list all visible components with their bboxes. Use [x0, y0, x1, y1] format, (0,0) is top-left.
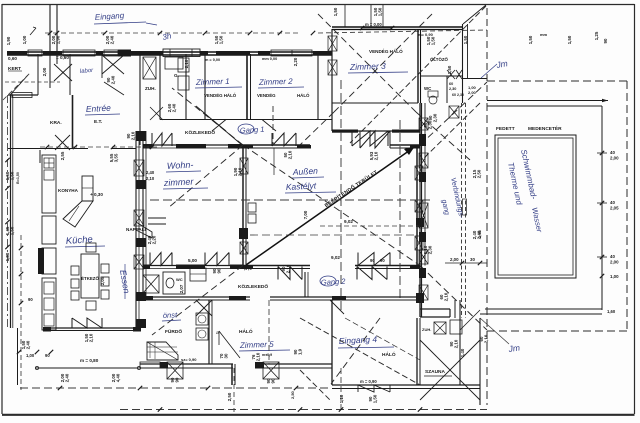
- svg-text:1,50: 1,50: [373, 394, 378, 403]
- svg-text:2,40: 2,40: [146, 170, 155, 175]
- svg-text:7,00: 7,00: [303, 210, 308, 219]
- svg-text:FEDETT: FEDETT: [496, 126, 515, 132]
- svg-text:2,30: 2,30: [449, 87, 456, 91]
- svg-text:B=1,50: B=1,50: [16, 172, 20, 184]
- svg-text:2,30: 2,30: [428, 245, 433, 254]
- svg-text:2,10: 2,10: [256, 352, 261, 361]
- svg-text:2,00: 2,00: [468, 90, 477, 95]
- svg-text:90: 90: [271, 378, 276, 383]
- svg-text:1,00: 1,00: [22, 35, 27, 44]
- svg-text:2,20: 2,20: [293, 57, 298, 66]
- svg-text:mm 0,00: mm 0,00: [262, 57, 277, 61]
- svg-text:WC: WC: [176, 277, 183, 282]
- svg-text:mm: mm: [540, 32, 548, 37]
- svg-text:1,80: 1,80: [5, 252, 10, 261]
- svg-text:KONYHA: KONYHA: [58, 188, 79, 193]
- svg-text:= 0,60: = 0,60: [56, 55, 69, 60]
- svg-text:2,55: 2,55: [477, 229, 482, 238]
- svg-text:1,00: 1,00: [26, 353, 35, 358]
- svg-text:2,10: 2,10: [484, 334, 489, 343]
- svg-text:Küche: Küche: [65, 234, 93, 247]
- svg-text:1,50: 1,50: [528, 35, 533, 44]
- svg-text:40: 40: [610, 200, 615, 205]
- svg-text:E.T.: E.T.: [94, 119, 102, 125]
- svg-text:90: 90: [175, 377, 180, 382]
- svg-text:m = 0,00: m = 0,00: [205, 58, 220, 62]
- svg-text:KÖZLEKEDŐ: KÖZLEKEDŐ: [238, 283, 268, 290]
- svg-text:labor: labor: [80, 68, 95, 75]
- svg-text:1,9: 1,9: [298, 348, 303, 355]
- svg-text:m=0,00: m=0,00: [40, 258, 44, 271]
- svg-text:2,40: 2,40: [111, 75, 116, 84]
- svg-text:2,40: 2,40: [65, 373, 70, 382]
- svg-text:30: 30: [224, 353, 229, 358]
- svg-text:Jm: Jm: [507, 342, 521, 354]
- svg-text:1,50: 1,50: [431, 36, 436, 45]
- svg-text:90: 90: [217, 268, 222, 273]
- svg-text:2,00: 2,00: [610, 260, 619, 265]
- svg-text:VENDÉG HÁLÓ: VENDÉG HÁLÓ: [204, 93, 237, 98]
- svg-text:ZUH.: ZUH.: [145, 86, 156, 91]
- svg-text:2,40: 2,40: [172, 103, 177, 112]
- svg-text:2,00: 2,00: [610, 156, 619, 161]
- svg-text:2,07: 2,07: [179, 284, 184, 293]
- svg-text:Außen: Außen: [292, 166, 319, 177]
- svg-text:2,50: 2,50: [227, 392, 232, 401]
- svg-text:a: a: [216, 331, 219, 336]
- svg-text:2,50: 2,50: [477, 169, 482, 178]
- svg-text:Kastélyt: Kastélyt: [286, 180, 317, 192]
- svg-text:2,30: 2,30: [433, 113, 438, 122]
- svg-text:Zimmer 2: Zimmer 2: [258, 77, 294, 87]
- svg-text:sz= 0,90: sz= 0,90: [181, 357, 197, 362]
- svg-text:WC: WC: [424, 86, 432, 91]
- svg-text:2,40: 2,40: [26, 340, 31, 349]
- svg-text:1,50: 1,50: [378, 7, 383, 16]
- svg-text:1,50: 1,50: [10, 171, 15, 180]
- svg-text:90: 90: [603, 38, 608, 43]
- svg-text:1,50: 1,50: [10, 226, 15, 235]
- svg-text:1,40: 1,40: [460, 348, 465, 357]
- svg-text:1,90: 1,90: [6, 36, 11, 45]
- svg-text:40: 40: [610, 254, 615, 259]
- svg-text:+ 0,30: + 0,30: [90, 192, 103, 197]
- svg-text:2,55: 2,55: [60, 151, 65, 160]
- svg-text:9,02: 9,02: [344, 219, 353, 224]
- svg-text:2,10: 2,10: [286, 264, 291, 273]
- svg-text:1,50: 1,50: [567, 35, 572, 44]
- svg-text:9,02: 9,02: [331, 255, 340, 260]
- svg-text:2,10: 2,10: [131, 131, 136, 140]
- svg-text:2,00: 2,00: [42, 67, 47, 76]
- svg-text:2,40: 2,40: [110, 35, 115, 44]
- svg-text:ZUH.: ZUH.: [422, 327, 431, 332]
- svg-text:40: 40: [610, 150, 615, 155]
- svg-text:2,50: 2,50: [290, 390, 295, 399]
- svg-text:Zimmer 3: Zimmer 3: [349, 61, 386, 72]
- svg-text:2,10: 2,10: [288, 150, 293, 159]
- svg-text:1,00: 1,00: [610, 274, 619, 279]
- svg-text:zimmer: zimmer: [163, 176, 195, 188]
- svg-text:FÜRDŐ: FÜRDŐ: [165, 328, 182, 335]
- svg-text:60: 60: [449, 82, 453, 86]
- svg-text:1,60: 1,60: [607, 309, 616, 314]
- svg-text:1,10: 1,10: [339, 394, 344, 403]
- svg-text:1,50: 1,50: [333, 7, 338, 16]
- svg-text:90: 90: [370, 258, 375, 263]
- svg-text:Eingang 4: Eingang 4: [339, 334, 378, 346]
- svg-text:70: 70: [248, 265, 253, 270]
- svg-text:Zimmer 1: Zimmer 1: [195, 77, 230, 87]
- svg-text:m = 0,80: m = 0,80: [80, 358, 99, 363]
- svg-text:1,90: 1,90: [56, 35, 61, 44]
- svg-text:KRA.: KRA.: [50, 120, 62, 126]
- svg-text:1,50: 1,50: [219, 35, 224, 44]
- svg-text:2,05: 2,05: [610, 206, 619, 211]
- svg-text:2,10: 2,10: [146, 176, 155, 181]
- svg-text:0,60: 0,60: [8, 56, 17, 61]
- svg-text:m = 0,90: m = 0,90: [360, 379, 377, 384]
- svg-text:KÖZLEKEDŐ: KÖZLEKEDŐ: [185, 129, 215, 136]
- svg-text:SZAUNA: SZAUNA: [425, 369, 446, 375]
- svg-text:90: 90: [28, 297, 33, 302]
- svg-text:2,10: 2,10: [374, 151, 379, 160]
- svg-text:5,00: 5,00: [188, 258, 197, 263]
- svg-text:2,10: 2,10: [89, 333, 94, 342]
- svg-text:ÉTKEZŐ: ÉTKEZŐ: [81, 276, 99, 281]
- svg-text:30: 30: [470, 257, 475, 262]
- svg-text:2,05: 2,05: [100, 276, 105, 285]
- svg-text:1,25: 1,25: [594, 31, 599, 40]
- svg-text:Entrée: Entrée: [86, 103, 112, 114]
- svg-text:2,10: 2,10: [454, 339, 459, 348]
- svg-text:3,55: 3,55: [114, 153, 119, 162]
- svg-text:önst: önst: [163, 310, 179, 320]
- svg-text:2,10: 2,10: [444, 292, 449, 301]
- svg-text:HÁLÓ: HÁLÓ: [297, 93, 310, 98]
- svg-text:60 2,30: 60 2,30: [452, 93, 464, 97]
- svg-text:2,10: 2,10: [238, 167, 243, 176]
- svg-text:VENDÉG: VENDÉG: [257, 93, 276, 98]
- svg-text:90: 90: [380, 258, 385, 263]
- svg-text:4,40: 4,40: [116, 373, 121, 382]
- svg-text:2,00: 2,00: [450, 257, 459, 262]
- svg-text:Wohn-: Wohn-: [167, 160, 194, 171]
- svg-text:m±0,9: m±0,9: [262, 353, 272, 357]
